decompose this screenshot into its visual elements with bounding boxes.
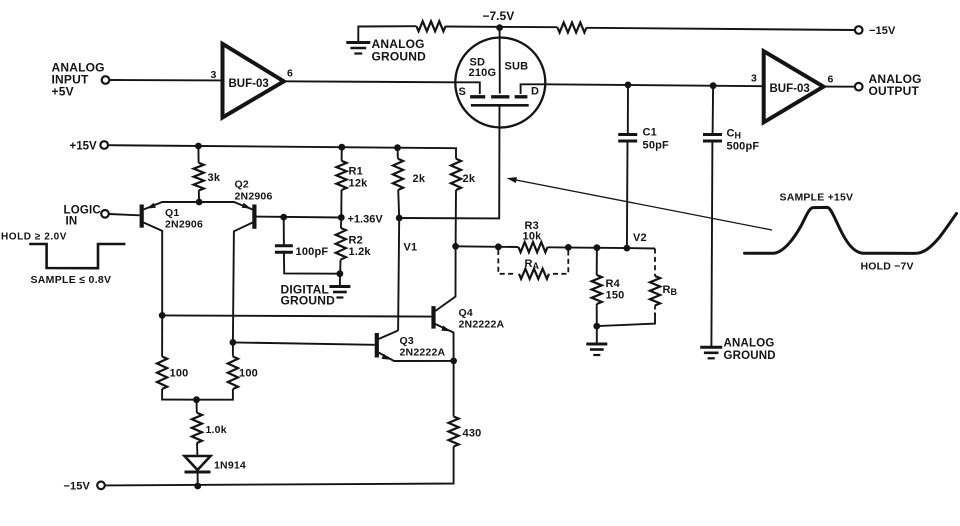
RA left bracket bbox=[498, 250, 514, 274]
svg-text:6: 6 bbox=[287, 67, 293, 79]
wire R2 upper stub bbox=[340, 218, 342, 229]
svg-text:SAMPLE +15V: SAMPLE +15V bbox=[780, 192, 854, 204]
resistor 430 bbox=[449, 417, 459, 447]
Q3 base bar bbox=[375, 333, 379, 358]
wire 3k upper stub bbox=[197, 146, 199, 163]
svg-text:Q3: Q3 bbox=[400, 335, 414, 347]
op-amp U1 BUF-03 triangle bbox=[223, 44, 284, 118]
RB upper dashed bbox=[654, 249, 656, 277]
wire R4 lower stub bbox=[596, 304, 598, 326]
wire logic in to Q1 base bbox=[109, 214, 140, 215]
wire R4 bottom to RB bottom bbox=[597, 313, 655, 326]
wire V2 to RB bbox=[627, 247, 655, 249]
junction CH top bbox=[710, 82, 717, 89]
svg-text:V1: V1 bbox=[404, 242, 418, 254]
svg-text:1.0k: 1.0k bbox=[206, 424, 227, 436]
svg-text:SAMPLE ≤ 0.8V: SAMPLE ≤ 0.8V bbox=[31, 274, 112, 286]
svg-text:100: 100 bbox=[239, 368, 258, 380]
MOSFET source bar bbox=[470, 95, 485, 98]
resistor R1 bbox=[336, 161, 346, 190]
ground ANALOG GROUND top-left bbox=[346, 43, 370, 54]
wire U3 output bbox=[824, 86, 855, 88]
svg-text:−15V: −15V bbox=[869, 25, 896, 37]
svg-text:210G: 210G bbox=[469, 67, 497, 79]
svg-text:3: 3 bbox=[211, 69, 217, 81]
Q1 emitter lead bbox=[144, 202, 200, 210]
ground ANALOG GROUND right bbox=[700, 347, 722, 358]
Q3 emitter lead bbox=[379, 353, 454, 362]
svg-text:D: D bbox=[531, 86, 539, 98]
svg-text:C1: C1 bbox=[643, 127, 657, 139]
wire R4 upper stub bbox=[596, 248, 598, 275]
wire 3k lower stub bbox=[198, 191, 200, 203]
Q2 base bar bbox=[252, 205, 256, 229]
logic waveform trace bbox=[29, 244, 125, 268]
wire CH lower to analog ground bbox=[711, 141, 712, 347]
Q4 emitter arrow (NPN) bbox=[441, 326, 450, 332]
Q2 collector lead bbox=[233, 223, 253, 343]
wire +15V rail bbox=[108, 145, 456, 159]
junction Q2 collector / Q3 base wire bbox=[230, 339, 237, 346]
junction RA right bracket bbox=[565, 244, 572, 251]
wire R1 lower stub bbox=[340, 190, 342, 218]
resistor R2 bbox=[336, 228, 346, 260]
svg-text:2N2906: 2N2906 bbox=[235, 190, 273, 202]
junction Q1-Q2 emitters / 3k bbox=[196, 199, 203, 206]
resistor 100 second bbox=[228, 357, 238, 390]
resistor 1.0k bbox=[192, 413, 202, 443]
wire R2 lower stub bbox=[339, 260, 341, 274]
svg-text:2k: 2k bbox=[413, 173, 426, 185]
svg-text:+1.36V: +1.36V bbox=[348, 214, 384, 226]
svg-text:Q2: Q2 bbox=[235, 179, 249, 191]
svg-text:GROUND: GROUND bbox=[372, 50, 427, 64]
wire 100-1 lower stub bbox=[162, 389, 196, 400]
wire rail to -15V terminal bbox=[587, 28, 855, 30]
diode 1N914 triangle bbox=[185, 456, 211, 470]
terminal -15V top right bbox=[855, 26, 863, 34]
terminal LOGIC IN bbox=[101, 210, 109, 218]
wire V1 node to R3 bbox=[456, 245, 519, 248]
svg-text:BUF-03: BUF-03 bbox=[229, 78, 269, 90]
wire Q2 collector to Q3 base bbox=[233, 342, 375, 344]
junction RA left bracket bbox=[495, 243, 502, 250]
svg-text:2N2222A: 2N2222A bbox=[400, 346, 446, 358]
resistor 2k first bbox=[393, 159, 403, 190]
junction 2k-1 top bbox=[394, 144, 401, 151]
svg-text:ANALOG: ANALOG bbox=[724, 338, 775, 350]
MOSFET U2 SD210G body circle bbox=[455, 38, 545, 128]
svg-text:100pF: 100pF bbox=[296, 246, 329, 258]
wire 100pF lower bbox=[284, 252, 340, 274]
svg-text:Q4: Q4 bbox=[459, 307, 473, 319]
svg-text:R4: R4 bbox=[606, 278, 621, 290]
junction Q1 collector / Q4 base wire bbox=[159, 312, 166, 319]
junction diode on -15V rail bbox=[194, 483, 201, 490]
terminal +15V bbox=[100, 141, 108, 149]
svg-text:GROUND: GROUND bbox=[281, 294, 336, 308]
resistor R3 10k bbox=[519, 242, 548, 252]
wire R3 to V2 bbox=[548, 246, 627, 249]
svg-text:HOLD −7V: HOLD −7V bbox=[861, 261, 914, 273]
svg-text:2k: 2k bbox=[463, 173, 476, 185]
wire SUB connection bbox=[499, 28, 501, 94]
junction R2 bottom / digital ground bbox=[337, 270, 344, 277]
svg-text:1N914: 1N914 bbox=[214, 459, 246, 471]
junction V2 bbox=[624, 245, 631, 252]
junction V1 node (2k-1, gate wire) bbox=[396, 215, 403, 222]
wire CH upper bbox=[712, 86, 715, 134]
wire 2k-2 down to V1 wire bbox=[455, 190, 457, 246]
svg-text:R2: R2 bbox=[349, 234, 363, 246]
Q2 emitter lead bbox=[199, 202, 253, 210]
junction 100pF top bbox=[280, 214, 287, 221]
annotation arrow to gate node bbox=[509, 179, 772, 230]
op-amp U3 BUF-03 triangle bbox=[764, 51, 824, 122]
wire Q2 base to +1.36V node bbox=[254, 216, 341, 219]
svg-text:100: 100 bbox=[170, 368, 189, 380]
resistor 2k second bbox=[451, 159, 461, 190]
wire gate down to V1 net bbox=[399, 105, 499, 218]
Q3 collector lead bbox=[379, 331, 399, 340]
MOSFET channel center bar bbox=[491, 95, 509, 98]
wire Q3/Q4 emitters to 430 bbox=[453, 361, 455, 417]
svg-text:3k: 3k bbox=[208, 172, 221, 184]
resistor RA bbox=[519, 269, 549, 279]
svg-text:BUF-03: BUF-03 bbox=[770, 83, 810, 95]
svg-text:−7.5V: −7.5V bbox=[483, 9, 515, 23]
MOSFET drain bar bbox=[515, 95, 528, 98]
resistor top-left on -7.5V rail bbox=[417, 21, 446, 31]
MOSFET source lead bbox=[456, 82, 480, 94]
svg-text:6: 6 bbox=[828, 73, 834, 85]
gate waveform trace bbox=[745, 207, 957, 253]
svg-text:500pF: 500pF bbox=[727, 141, 760, 153]
svg-text:50pF: 50pF bbox=[643, 140, 670, 152]
junction 2k-2 / R3 wire bbox=[452, 243, 459, 250]
junction R1 top bbox=[338, 144, 345, 151]
wire 2k-1 upper stub bbox=[397, 148, 399, 159]
wire Q1 collector to Q4 base bbox=[162, 315, 431, 316]
Q4 collector lead bbox=[435, 246, 455, 311]
junction 100s to 1.0k bbox=[193, 396, 200, 403]
svg-text:430: 430 bbox=[463, 428, 482, 440]
ground DIGITAL GROUND bbox=[329, 287, 350, 298]
terminal ANALOG OUTPUT bbox=[855, 83, 863, 91]
wire ground stem below R4 bbox=[596, 326, 598, 343]
svg-text:2N2906: 2N2906 bbox=[165, 218, 203, 230]
wire C1 lower to V2 bbox=[626, 141, 629, 248]
svg-text:SUB: SUB bbox=[505, 60, 529, 72]
capacitor CH bbox=[703, 135, 722, 142]
svg-text:Q1: Q1 bbox=[165, 207, 179, 219]
MOSFET gate bar bbox=[471, 104, 529, 107]
ground below R4 bbox=[586, 344, 607, 355]
wire 100-2 lower stub bbox=[197, 389, 233, 400]
svg-text:−15V: −15V bbox=[64, 480, 91, 492]
junction Q3/Q4 emitters / 430 bbox=[450, 358, 457, 365]
wire C1 upper bbox=[627, 85, 629, 134]
svg-text:GROUND: GROUND bbox=[724, 350, 776, 362]
terminal -15V bottom bbox=[97, 482, 105, 490]
wire 2k-1 lower stub bbox=[398, 190, 399, 218]
wire 100-2 upper stub bbox=[232, 342, 234, 356]
junction R4 top bbox=[594, 244, 601, 251]
junction -7.5V node bbox=[496, 24, 503, 31]
Q4 emitter lead bbox=[435, 324, 453, 361]
diode 1N914 cathode bar bbox=[185, 471, 211, 474]
svg-text:1.2k: 1.2k bbox=[349, 246, 372, 258]
svg-text:R1: R1 bbox=[349, 165, 363, 177]
RB lower dashed bbox=[654, 306, 656, 316]
wire -7.5V rail segment bbox=[446, 26, 558, 29]
svg-text:S: S bbox=[459, 86, 467, 98]
junction 3k top bbox=[195, 143, 202, 150]
wire 1.0k upper stub bbox=[196, 400, 198, 413]
capacitor 100pF bbox=[275, 246, 293, 253]
junction C1 top bbox=[625, 82, 632, 89]
junction R4 bottom bbox=[593, 323, 600, 330]
svg-text:+15V: +15V bbox=[70, 140, 98, 152]
resistor top-right on -7.5V rail bbox=[558, 23, 587, 33]
resistor RB bbox=[650, 276, 660, 306]
wire U1 output to MOSFET source bbox=[284, 81, 456, 82]
wire diode to -15V rail bbox=[197, 472, 199, 486]
svg-text:150: 150 bbox=[606, 289, 625, 301]
wire 1.0k to diode bbox=[196, 443, 198, 455]
svg-text:12k: 12k bbox=[349, 177, 369, 189]
resistor 100 first bbox=[157, 357, 167, 390]
svg-text:+5V: +5V bbox=[52, 85, 74, 99]
wire V1 vertical bbox=[398, 218, 399, 331]
svg-text:10k: 10k bbox=[523, 231, 543, 243]
wire R1 upper stub bbox=[341, 147, 343, 161]
Q3 emitter arrow (NPN) bbox=[382, 354, 391, 360]
wire analog-ground stub bbox=[358, 26, 416, 42]
wire 100-1 upper stub bbox=[161, 315, 163, 356]
svg-text:V2: V2 bbox=[633, 232, 647, 244]
svg-text:OUTPUT: OUTPUT bbox=[869, 84, 920, 98]
svg-text:2N2222A: 2N2222A bbox=[459, 318, 505, 330]
svg-text:3: 3 bbox=[751, 73, 757, 85]
resistor 3k bbox=[194, 163, 204, 191]
capacitor C1 bbox=[618, 135, 637, 142]
RA right bracket bbox=[553, 251, 568, 274]
Q2 emitter arrow (PNP) bbox=[242, 203, 251, 209]
svg-text:HOLD ≥ 2.0V: HOLD ≥ 2.0V bbox=[1, 231, 67, 242]
wire -15V bottom rail bbox=[105, 447, 454, 486]
junction +1.36V bbox=[338, 214, 345, 221]
wire 100pF upper bbox=[283, 217, 285, 245]
svg-text:IN: IN bbox=[66, 215, 78, 227]
Q4 base bar bbox=[431, 306, 435, 329]
wire digital ground stem bbox=[339, 274, 341, 286]
wire input to U1 bbox=[110, 79, 223, 81]
resistor R4 bbox=[592, 275, 602, 304]
Q1 emitter arrow (PNP) bbox=[147, 203, 156, 209]
MOSFET drain lead bbox=[521, 84, 545, 94]
terminal ANALOG INPUT bbox=[102, 76, 110, 84]
Q1 base bar bbox=[140, 205, 144, 228]
Q1 collector lead bbox=[144, 223, 163, 316]
wire drain to U3 input bbox=[545, 84, 764, 86]
